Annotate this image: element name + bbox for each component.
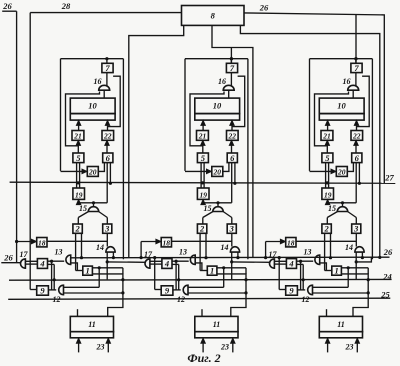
svg-text:21: 21 [73,132,82,141]
svg-text:26: 26 [383,247,393,257]
svg-text:5: 5 [76,153,81,163]
svg-text:11: 11 [337,320,345,329]
svg-text:21: 21 [322,132,331,141]
svg-text:16: 16 [94,77,102,86]
svg-text:17: 17 [269,250,278,259]
svg-text:22: 22 [352,132,361,141]
svg-text:6: 6 [106,153,111,163]
svg-text:15: 15 [79,204,87,213]
svg-text:18: 18 [38,238,46,247]
svg-text:25: 25 [380,289,390,299]
svg-text:13: 13 [304,248,312,257]
svg-text:1: 1 [334,266,338,276]
svg-text:19: 19 [324,191,332,200]
svg-text:23: 23 [345,343,354,352]
svg-text:6: 6 [230,153,235,163]
svg-text:4: 4 [164,259,169,269]
svg-text:17: 17 [144,250,153,259]
svg-text:15: 15 [328,204,336,213]
svg-text:3: 3 [229,224,235,234]
svg-text:11: 11 [88,320,96,329]
svg-text:24: 24 [382,272,392,282]
svg-text:23: 23 [220,343,229,352]
svg-text:5: 5 [201,153,206,163]
svg-text:2: 2 [74,224,80,234]
svg-text:12: 12 [177,295,185,304]
svg-text:15: 15 [204,204,212,213]
svg-text:18: 18 [287,238,295,247]
svg-text:8: 8 [211,11,216,21]
svg-text:11: 11 [213,320,221,329]
svg-text:16: 16 [218,77,226,86]
svg-text:4: 4 [288,259,293,269]
svg-text:2: 2 [323,224,329,234]
svg-text:3: 3 [353,224,359,234]
svg-text:20: 20 [88,168,97,177]
svg-text:22: 22 [228,132,237,141]
svg-text:3: 3 [104,224,110,234]
svg-text:19: 19 [199,191,207,200]
svg-text:10: 10 [213,101,222,111]
svg-text:20: 20 [213,168,222,177]
svg-text:2: 2 [199,224,205,234]
svg-text:27: 27 [384,173,394,183]
svg-text:26: 26 [2,1,12,11]
svg-text:6: 6 [355,153,360,163]
svg-text:10: 10 [88,101,97,111]
svg-text:19: 19 [75,191,83,200]
svg-text:5: 5 [325,153,330,163]
svg-text:16: 16 [343,77,351,86]
svg-text:14: 14 [345,243,353,252]
svg-text:1: 1 [85,266,89,276]
svg-text:14: 14 [96,243,104,252]
svg-text:14: 14 [221,243,229,252]
svg-text:22: 22 [103,132,112,141]
svg-text:1: 1 [210,266,214,276]
svg-text:12: 12 [302,295,310,304]
svg-text:28: 28 [61,1,71,11]
svg-text:4: 4 [39,259,44,269]
svg-text:23: 23 [96,343,105,352]
svg-text:26: 26 [3,253,13,263]
svg-text:12: 12 [53,295,61,304]
svg-text:20: 20 [337,168,346,177]
svg-text:26: 26 [259,3,269,13]
svg-text:10: 10 [337,101,346,111]
svg-text:21: 21 [198,132,207,141]
svg-text:13: 13 [55,248,63,257]
svg-text:17: 17 [20,250,29,259]
svg-text:Фиг. 2: Фиг. 2 [187,351,220,365]
svg-text:18: 18 [163,238,171,247]
svg-text:13: 13 [179,248,187,257]
